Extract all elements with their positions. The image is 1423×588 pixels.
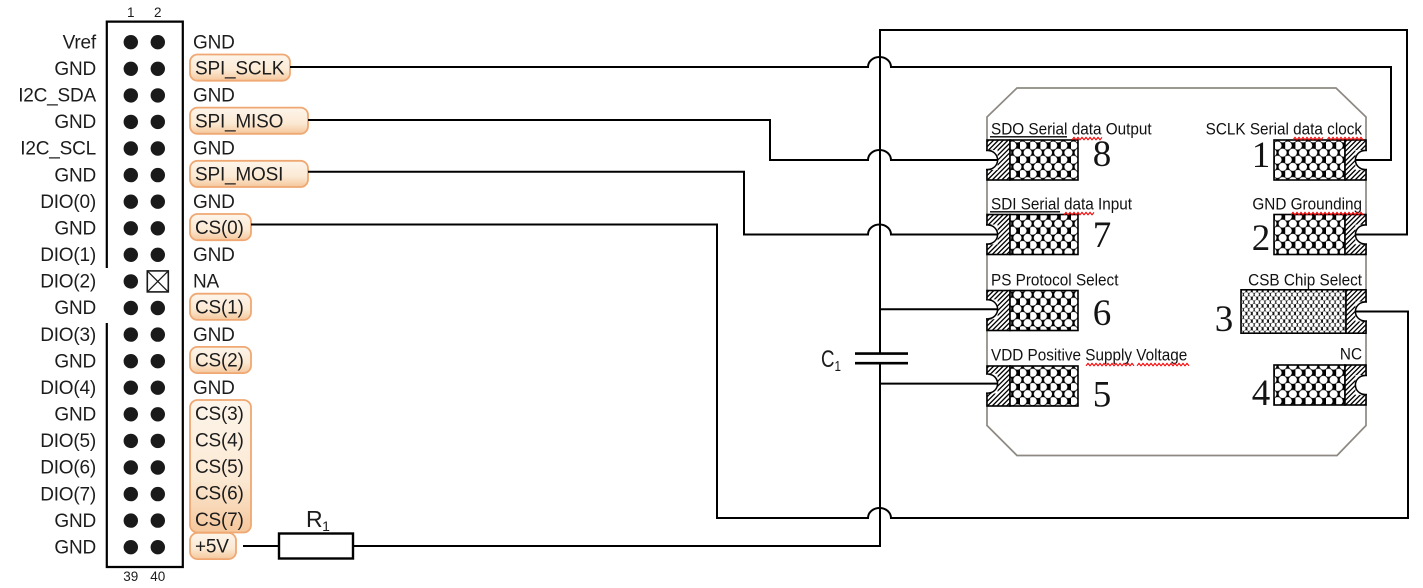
svg-text:GND: GND — [54, 112, 96, 133]
svg-text:SCLK Serial data clock: SCLK Serial data clock — [1206, 120, 1363, 139]
highlighted net label group CS(3)-CS(7) — [190, 400, 251, 533]
header pin dot row 8 col 2 — [151, 221, 165, 235]
svg-text:7: 7 — [1093, 215, 1112, 256]
svg-text:2: 2 — [1252, 218, 1271, 259]
svg-text:GND: GND — [193, 86, 235, 107]
header pin dot row 16 col 1 — [124, 434, 138, 448]
wire +5V from header to resistor R1 — [243, 545, 279, 547]
svg-text:GND: GND — [193, 32, 235, 53]
IC pad pin 6 castellation notch — [986, 299, 998, 319]
svg-text:I2C_SDA: I2C_SDA — [18, 86, 96, 107]
header pin dot row 1 col 2 — [151, 35, 165, 49]
header pin dot row 7 col 2 — [151, 195, 165, 209]
IC pin 3 label CSB Chip Select — [1248, 271, 1362, 290]
svg-text:GND: GND — [193, 245, 235, 266]
svg-text:GND: GND — [54, 165, 96, 186]
svg-text:CS(1): CS(1) — [195, 298, 244, 319]
svg-text:SDO Serial data Output: SDO Serial data Output — [991, 120, 1152, 139]
svg-text:5: 5 — [1093, 375, 1112, 416]
IC pad pin 2 mesh land — [1274, 215, 1345, 255]
svg-text:CSB Chip Select: CSB Chip Select — [1248, 271, 1362, 290]
IC pad pin 7 hatched land — [987, 215, 1010, 255]
highlighted net label SPI_MISO — [190, 108, 308, 134]
header pin dot row 19 col 2 — [151, 513, 165, 527]
svg-text:DIO(2): DIO(2) — [40, 272, 96, 293]
svg-text:GND: GND — [54, 351, 96, 372]
svg-text:GND: GND — [193, 378, 235, 399]
IC pin 6 label PS Protocol Select — [991, 271, 1119, 290]
svg-text:CS(6): CS(6) — [195, 484, 244, 505]
header pin dot row 5 col 2 — [151, 141, 165, 155]
IC pad pin 6 hatched land — [987, 291, 1010, 331]
svg-text:DIO(3): DIO(3) — [40, 325, 96, 346]
wire R1 output to +5V/VDD bus corner — [353, 363, 880, 546]
header pin dot row 9 col 1 — [124, 248, 138, 262]
IC pad pin 2 hatched land — [1345, 215, 1366, 255]
svg-text:39: 39 — [123, 569, 138, 584]
header pin dot row 16 col 2 — [151, 434, 165, 448]
IC pad pin 3 mesh land — [1241, 290, 1346, 333]
svg-text:CS(4): CS(4) — [195, 430, 244, 451]
svg-text:Vref: Vref — [63, 32, 97, 53]
IC pin 1 label SCLK Serial data clock — [1206, 120, 1363, 140]
svg-text:40: 40 — [150, 569, 165, 584]
svg-text:1: 1 — [1252, 135, 1271, 176]
header pin dot row 9 col 2 — [151, 248, 165, 262]
highlighted net label CS(1) — [190, 294, 251, 320]
pin DIO(2)/NA crossed-out square (no-connect) — [147, 271, 168, 292]
wire GND bus vertical top segment with top route to IC pin 2 — [880, 30, 1407, 353]
wire SPI_SCLK net: header to IC pin 1 (hops over bus) — [290, 57, 1391, 160]
svg-text:GND: GND — [54, 219, 96, 240]
IC pin 8 label SDO Serial data Output — [990, 120, 1152, 140]
header pin dot row 14 col 1 — [124, 381, 138, 395]
svg-text:SPI_MISO: SPI_MISO — [195, 111, 283, 132]
IC pad pin 4 mesh land — [1274, 365, 1345, 405]
header pin dot row 12 col 2 — [151, 327, 165, 341]
svg-text:2: 2 — [154, 5, 162, 20]
header pin dot row 2 col 2 — [151, 62, 165, 76]
svg-text:GND Grounding: GND Grounding — [1252, 195, 1362, 214]
capacitor C1 top plate — [855, 352, 908, 355]
IC pad pin 5 hatched land — [987, 366, 1010, 406]
wire CS(0) net: header to IC pin 3 CSB via bottom route (hops over bus) — [251, 225, 1408, 519]
header pin dot row 14 col 2 — [151, 381, 165, 395]
IC pin 2 label GND Grounding — [1252, 195, 1363, 215]
header pin dot row 17 col 1 — [124, 460, 138, 474]
IC pad pin 6 mesh land — [1010, 291, 1078, 331]
svg-text:SPI_SCLK: SPI_SCLK — [195, 58, 285, 79]
svg-text:GND: GND — [54, 537, 96, 558]
IC pad pin 2 castellation notch — [1355, 225, 1367, 245]
header pin dot row 6 col 2 — [151, 168, 165, 182]
capacitor designator C1 — [821, 346, 841, 375]
header pin dot row 17 col 2 — [151, 460, 165, 474]
header pin dot row 4 col 1 — [124, 115, 138, 129]
header pin dot row 18 col 2 — [151, 487, 165, 501]
IC pad pin 7 castellation notch — [986, 225, 998, 245]
svg-text:SPI_MOSI: SPI_MOSI — [195, 165, 283, 186]
IC pad pin 8 mesh land — [1010, 140, 1078, 180]
resistor R1 body — [279, 534, 353, 559]
IC pad pin 3 castellation notch — [1355, 302, 1367, 322]
IC pad pin 7 mesh land — [1010, 215, 1078, 255]
svg-text:GND: GND — [193, 139, 235, 160]
IC pad pin 5 mesh land — [1010, 366, 1078, 406]
header pin dot row 8 col 1 — [124, 221, 138, 235]
IC pad pin 4 hatched land — [1345, 365, 1366, 405]
svg-text:DIO(4): DIO(4) — [40, 378, 96, 399]
IC pad pin 1 castellation notch — [1355, 150, 1367, 170]
header pin dot row 5 col 1 — [124, 141, 138, 155]
header pin dot row 3 col 1 — [124, 88, 138, 102]
IC pin 4 label NC — [1340, 345, 1362, 364]
header pin dot row 20 col 2 — [151, 540, 165, 554]
svg-text:6: 6 — [1093, 293, 1112, 334]
header pin dot row 3 col 2 — [151, 88, 165, 102]
svg-text:SDI Serial data Input: SDI Serial data Input — [991, 195, 1133, 214]
header pin dot row 18 col 1 — [124, 487, 138, 501]
svg-text:3: 3 — [1215, 299, 1234, 340]
header pin dot row 11 col 1 — [124, 301, 138, 315]
header pin dot row 1 col 1 — [124, 35, 138, 49]
svg-text:CS(3): CS(3) — [195, 404, 244, 425]
svg-text:C1: C1 — [821, 346, 841, 375]
svg-text:CS(5): CS(5) — [195, 457, 244, 478]
IC pad pin 4 castellation notch — [1355, 375, 1367, 395]
svg-text:DIO(6): DIO(6) — [40, 458, 96, 479]
header pin dot row 7 col 1 — [124, 195, 138, 209]
highlighted net label +5V — [190, 533, 236, 559]
wire SPI_MOSI net: header to IC pin 7 SDI (hops over bus) — [308, 172, 997, 235]
svg-text:CS(2): CS(2) — [195, 351, 244, 372]
IC U1 sensor package outline (chamfered LGA body) — [987, 88, 1366, 456]
header pin dot row 15 col 2 — [151, 407, 165, 421]
header pin dot row 10 col 1 — [124, 274, 138, 288]
svg-text:DIO(0): DIO(0) — [40, 192, 96, 213]
svg-text:R1: R1 — [306, 506, 330, 534]
wire stub bus to IC pin 5 VDD — [880, 383, 997, 385]
IC pad pin 5 castellation notch — [986, 374, 998, 394]
header pin dot row 6 col 1 — [124, 168, 138, 182]
header pin dot row 13 col 1 — [124, 354, 138, 368]
highlighted net label SPI_SCLK — [190, 55, 290, 81]
header pin dot row 15 col 1 — [124, 407, 138, 421]
IC pad pin 1 hatched land — [1345, 140, 1366, 180]
svg-text:NC: NC — [1340, 345, 1362, 364]
header pin dot row 4 col 2 — [151, 115, 165, 129]
svg-text:CS(0): CS(0) — [195, 218, 244, 239]
svg-text:1: 1 — [127, 5, 135, 20]
connector J1 body (40-pin header outline) — [107, 22, 183, 567]
svg-text:GND: GND — [54, 511, 96, 532]
capacitor C1 bottom plate — [855, 362, 908, 365]
svg-text:GND: GND — [193, 325, 235, 346]
svg-text:I2C_SCL: I2C_SCL — [20, 139, 96, 160]
svg-text:GND: GND — [54, 405, 96, 426]
svg-text:+5V: +5V — [195, 537, 229, 558]
header pin dot row 12 col 1 — [124, 327, 138, 341]
svg-text:DIO(5): DIO(5) — [40, 431, 96, 452]
highlighted net label CS(0) — [190, 214, 251, 240]
svg-text:4: 4 — [1252, 373, 1271, 414]
svg-text:DIO(1): DIO(1) — [40, 245, 96, 266]
wire stub bus to IC pin 6 PS — [880, 308, 997, 310]
svg-text:NA: NA — [193, 272, 220, 293]
IC pad pin 8 castellation notch — [986, 150, 998, 170]
svg-text:GND: GND — [193, 192, 235, 213]
svg-text:DIO(7): DIO(7) — [40, 484, 96, 505]
wire SPI_MISO net: header to IC pin 8 SDO (hops over bus) — [308, 120, 997, 160]
IC pad pin 1 mesh land — [1274, 140, 1345, 180]
header pin dot row 20 col 1 — [124, 540, 138, 554]
header pin dot row 11 col 2 — [151, 301, 165, 315]
svg-text:CS(7): CS(7) — [195, 510, 244, 531]
header pin dot row 13 col 2 — [151, 354, 165, 368]
highlighted net label CS(2) — [190, 347, 251, 373]
svg-text:GND: GND — [54, 59, 96, 80]
IC pad pin 8 hatched land — [987, 140, 1010, 180]
svg-text:PS Protocol Select: PS Protocol Select — [991, 271, 1119, 290]
svg-text:8: 8 — [1093, 134, 1112, 175]
highlighted net label SPI_MOSI — [190, 161, 308, 187]
header pin dot row 19 col 1 — [124, 513, 138, 527]
svg-text:VDD Positive Supply Voltage: VDD Positive Supply Voltage — [991, 346, 1187, 365]
IC pad pin 3 hatched land — [1346, 290, 1366, 333]
header pin dot row 2 col 1 — [124, 62, 138, 76]
IC pin 7 label SDI Serial data Input — [990, 195, 1133, 215]
IC pin 5 label VDD Positive Supply Voltage — [991, 346, 1189, 366]
svg-text:GND: GND — [54, 298, 96, 319]
